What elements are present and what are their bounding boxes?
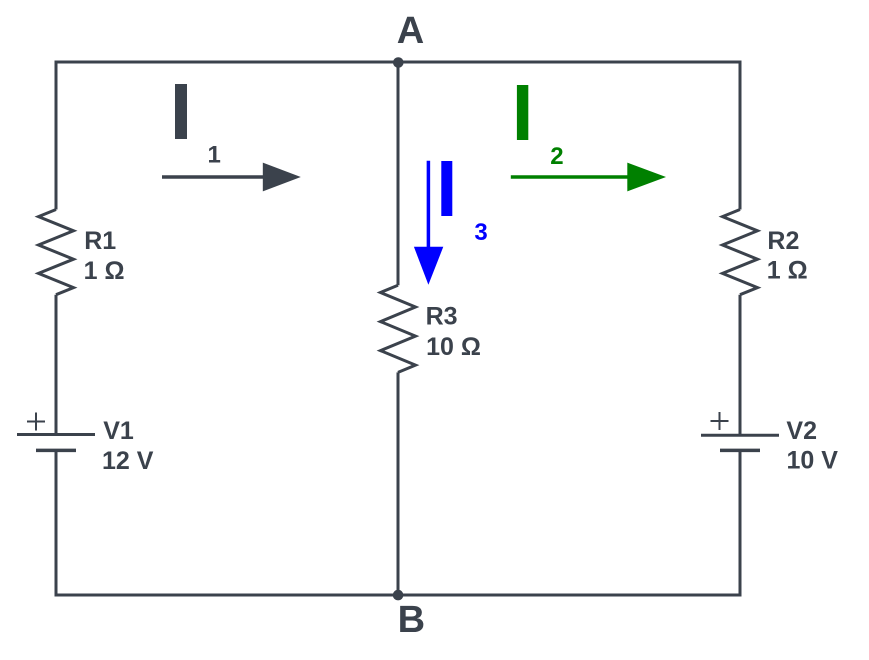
resistor R1 bbox=[39, 210, 74, 295]
V2 plus sign bbox=[711, 412, 729, 430]
svg-text:1 Ω: 1 Ω bbox=[767, 257, 808, 285]
current I1 arrow bbox=[162, 163, 301, 192]
current I3 arrow bbox=[414, 161, 443, 285]
svg-text:R2: R2 bbox=[767, 227, 799, 255]
svg-text:R1: R1 bbox=[84, 227, 116, 255]
wire left upper (corner to R1) bbox=[55, 61, 58, 210]
battery V1 bbox=[17, 413, 95, 451]
wire right upper (corner to R2) bbox=[739, 61, 742, 210]
current I1 symbol (dark I bar) bbox=[175, 84, 187, 139]
resistor R3 bbox=[381, 285, 416, 372]
svg-text:2: 2 bbox=[550, 143, 563, 170]
current I3 symbol (blue I bar) bbox=[441, 161, 452, 216]
V2 long plate (+) bbox=[701, 434, 779, 437]
wire left lower (V1 to bottom corner) bbox=[55, 450, 58, 596]
battery V2 bbox=[701, 412, 779, 450]
svg-text:A: A bbox=[397, 10, 424, 52]
V1 short plate (-) bbox=[36, 449, 76, 453]
V1 plus sign bbox=[27, 413, 45, 431]
svg-text:3: 3 bbox=[474, 219, 487, 246]
wire middle upper (node A to R3) bbox=[397, 62, 400, 285]
svg-text:R3: R3 bbox=[426, 303, 458, 331]
wire right middle (R2 to V2) bbox=[739, 295, 742, 436]
svg-text:V1: V1 bbox=[103, 417, 134, 445]
wire middle lower (R3 to node B) bbox=[397, 372, 400, 595]
svg-text:B: B bbox=[398, 599, 425, 641]
wire left middle (R1 to V1) bbox=[55, 295, 58, 435]
node B junction dot bbox=[393, 590, 404, 601]
svg-text:1 Ω: 1 Ω bbox=[84, 257, 125, 285]
V1 long plate (+) bbox=[17, 433, 95, 436]
wire bottom-right (node B to bottom-right corner) bbox=[398, 594, 740, 597]
V2 short plate (-) bbox=[720, 449, 760, 453]
current I2 symbol (green I bar) bbox=[517, 85, 528, 140]
resistor R2 bbox=[723, 210, 758, 295]
wire top-left (node A to top-left corner) bbox=[56, 61, 398, 64]
svg-text:V2: V2 bbox=[786, 417, 817, 445]
node A junction dot bbox=[393, 57, 404, 68]
svg-text:10 Ω: 10 Ω bbox=[426, 333, 481, 361]
svg-text:1: 1 bbox=[208, 142, 221, 169]
wire bottom-left (corner to node B) bbox=[56, 594, 398, 597]
wire top-right (node A to top-right corner) bbox=[398, 61, 740, 64]
current I2 arrow bbox=[511, 163, 666, 192]
wire right lower (V2 to bottom corner) bbox=[739, 450, 742, 596]
svg-text:12 V: 12 V bbox=[102, 447, 154, 475]
svg-text:10 V: 10 V bbox=[787, 447, 839, 475]
